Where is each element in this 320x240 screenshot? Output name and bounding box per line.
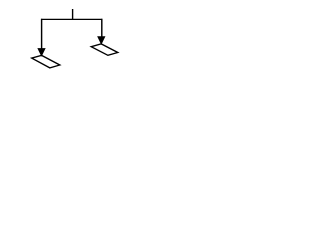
wire: left drop [41, 19, 43, 51]
wire: horizontal bus bar [41, 18, 102, 20]
arrowhead right [98, 37, 105, 45]
wire: right drop [101, 19, 103, 39]
arrowhead left [38, 49, 45, 57]
plate (parallelogram) left [32, 55, 60, 68]
plate (parallelogram) right [91, 44, 118, 55]
top stub wire [72, 9, 74, 20]
